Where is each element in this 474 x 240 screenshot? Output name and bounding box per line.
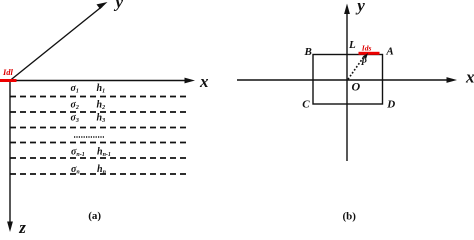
label sigma1 h1	[71, 83, 106, 95]
label sigman hn	[71, 164, 107, 176]
svg-text:A: A	[385, 45, 393, 57]
svg-text:(b): (b)	[343, 211, 357, 223]
x-axis	[10, 78, 195, 84]
svg-text:x: x	[465, 68, 474, 87]
loop rectangle ABCD	[313, 55, 383, 105]
layer boundary 2	[10, 111, 189, 113]
svg-text:P: P	[361, 57, 367, 67]
current element Ids (red bar on top edge)	[359, 52, 380, 55]
y-axis (oblique)	[10, 2, 108, 81]
z-axis	[7, 81, 13, 233]
svg-text:D: D	[386, 99, 395, 111]
current element Idl (red bar)	[0, 79, 17, 82]
svg-text:Ids: Ids	[361, 43, 372, 52]
label sigma(n-1) h(n-1)	[71, 147, 111, 159]
x-axis	[237, 77, 457, 83]
label sigma3 h3	[71, 113, 106, 125]
layer boundary 4	[10, 142, 189, 144]
svg-text:(a): (a)	[88, 210, 101, 222]
svg-text:L: L	[348, 39, 356, 51]
svg-text:z: z	[18, 218, 26, 233]
layer boundary 1	[10, 96, 189, 98]
svg-text:x: x	[199, 72, 209, 91]
layer boundary 6	[10, 173, 189, 175]
svg-text:y: y	[114, 0, 124, 11]
layer boundary 3	[10, 127, 189, 129]
svg-text:O: O	[352, 80, 361, 94]
svg-text:B: B	[304, 46, 312, 58]
svg-text:Idl: Idl	[2, 67, 14, 77]
layer boundary 5	[10, 157, 189, 159]
dotted arrow O to P	[348, 53, 368, 79]
y-axis	[344, 4, 350, 162]
ellipsis dots row	[74, 136, 104, 138]
svg-text:y: y	[355, 0, 365, 15]
label sigma2 h2	[71, 100, 106, 112]
svg-text:C: C	[302, 99, 310, 111]
